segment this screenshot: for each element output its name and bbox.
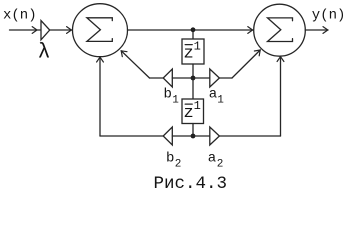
op-amp summer U1 (left sigma circle) [73,4,128,57]
svg-text:y(n): y(n) [312,8,346,24]
sigma symbol U2 [268,18,293,42]
svg-text:1: 1 [194,99,201,113]
wire input x(n) to gain [10,27,41,34]
sigma symbol U1 [87,18,112,42]
wire row2 center segment [172,135,210,137]
svg-text:Рис.4.3: Рис.4.3 [154,174,228,194]
svg-text:2: 2 [217,159,224,171]
wire summer U2 output y(n) [305,27,328,34]
multiplier b2 triangle [163,127,172,145]
wire row2 left segment to b2 [100,135,163,137]
value label a2 [208,151,224,171]
node junction w(n) [191,27,196,32]
svg-text:z: z [184,104,194,123]
wire b1 diagonal into summer U1 [121,51,149,78]
svg-text:a: a [208,151,216,167]
op-amp summer U2 (right sigma circle) [254,4,306,56]
wire gain to summer U1 [50,27,72,34]
svg-text:x(n): x(n) [3,8,37,24]
wire delay Z1 to row1 junction [192,64,194,78]
wire a1 diagonal into summer U2 [232,50,260,78]
svg-text:1: 1 [172,95,179,107]
multiplier a1 triangle [210,69,220,87]
wire row1 center (junction to b1 and a1 bases) [172,77,210,79]
svg-text:λ: λ [38,42,51,65]
wire row1 left segment to b1 [150,77,164,79]
wire right riser a2 into summer U2 bottom [277,57,284,136]
wire a2 to right riser [219,135,280,137]
node junction w(n-1) [191,76,196,81]
svg-text:b: b [166,151,174,167]
wire delay Z2 to row2 junction [192,124,194,137]
delay block Z1 (z^-1) [182,39,204,64]
multiplier b1 triangle [163,69,172,87]
svg-text:a: a [209,87,217,103]
wire left riser b2 into summer U1 bottom [97,57,104,136]
wire summer U1 to summer U2 (top) [128,27,254,34]
value label b2 [166,151,181,171]
svg-text:b: b [164,87,172,103]
svg-text:z: z [184,45,194,64]
wire row1 junction to delay Z2 [192,78,194,99]
svg-text:1: 1 [194,40,201,54]
delay block Z2 (z^-1) [182,99,204,124]
amplifier (gain) triangle [41,21,50,40]
value label a1 [209,87,225,107]
value label b1 [164,87,180,107]
wire junction to delay Z1 [192,30,194,39]
multiplier a2 triangle [210,127,220,145]
svg-text:2: 2 [175,159,182,171]
wire a1 to elbow [219,77,232,79]
node junction w(n-2) [191,134,196,139]
svg-text:1: 1 [217,95,224,107]
